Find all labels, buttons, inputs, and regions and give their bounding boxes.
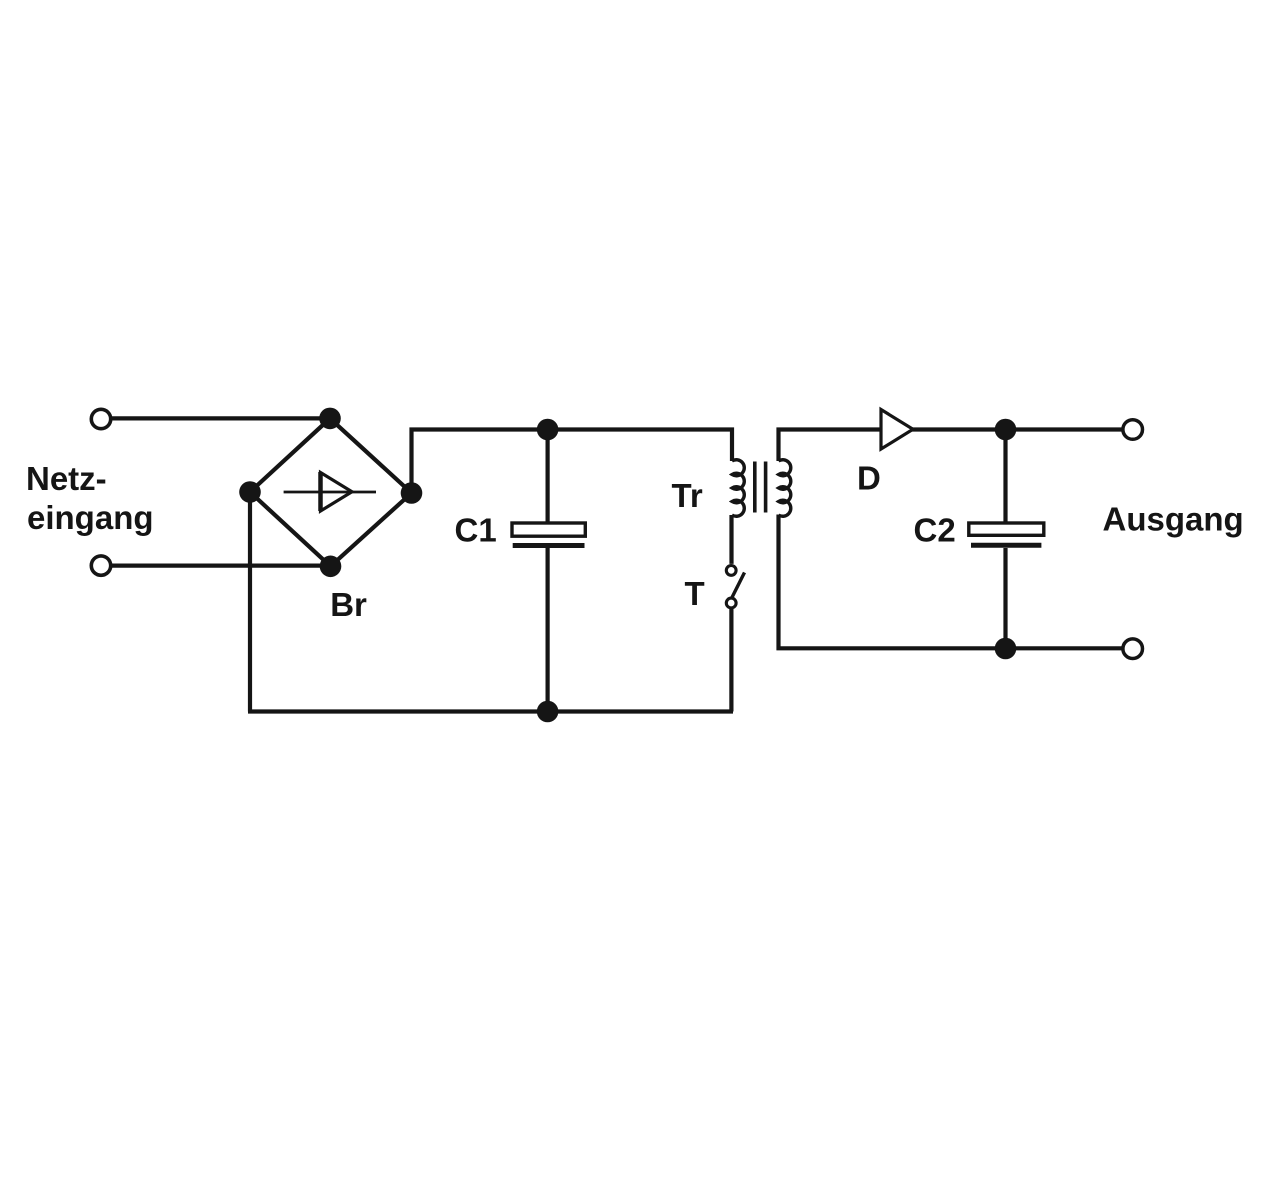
node C1 top bbox=[537, 419, 559, 441]
node C1 bottom bbox=[537, 701, 559, 723]
node C2 top bbox=[995, 419, 1017, 441]
node bridge top bbox=[319, 408, 341, 430]
node bridge right bbox=[401, 482, 423, 504]
output terminal lower bbox=[1123, 639, 1143, 659]
transformer core bar right bbox=[764, 462, 768, 513]
bridge rectifier Br diamond bbox=[250, 418, 412, 566]
input terminal upper bbox=[91, 409, 110, 428]
capacitor C2 top plate bbox=[969, 523, 1044, 535]
node bridge left bbox=[239, 481, 261, 503]
node bridge bottom bbox=[320, 556, 342, 578]
wire upper input to bridge top node bbox=[111, 416, 330, 420]
switch T arm bbox=[732, 573, 745, 599]
input terminal lower bbox=[91, 556, 110, 575]
capacitor C2 bottom lead bbox=[1003, 548, 1007, 648]
bridge inner diode left bar bbox=[318, 472, 323, 511]
svg-text:Tr: Tr bbox=[672, 477, 703, 514]
svg-text:C1: C1 bbox=[455, 512, 497, 549]
svg-text:Ausgang: Ausgang bbox=[1103, 501, 1244, 538]
switch T bottom contact bbox=[726, 598, 736, 608]
transformer core bar left bbox=[753, 462, 757, 513]
svg-text:Netz-: Netz- bbox=[26, 460, 107, 497]
wire primary winding to switch bbox=[729, 515, 733, 564]
wire bridge left node down to bottom rail bbox=[248, 492, 252, 712]
transformer Tr secondary winding bbox=[779, 460, 791, 516]
transformer Tr primary winding bbox=[732, 460, 744, 516]
wire secondary bottom rail bbox=[779, 515, 1124, 649]
bridge inner diode triangle bbox=[321, 473, 353, 512]
wire secondary top to diode and output bbox=[779, 430, 1124, 462]
bridge inner diode line bbox=[284, 491, 376, 494]
diode D triangle bbox=[881, 410, 913, 450]
node C2 bottom bbox=[995, 638, 1017, 660]
wire bridge right node up and top rail to transformer bbox=[412, 430, 733, 494]
switch T top contact bbox=[726, 566, 736, 576]
svg-text:C2: C2 bbox=[914, 512, 956, 549]
wire switch to bottom rail bbox=[729, 608, 733, 712]
capacitor C1 top plate bbox=[512, 523, 585, 536]
output terminal upper bbox=[1123, 420, 1143, 440]
svg-text:D: D bbox=[857, 460, 881, 497]
wire bottom rail bbox=[248, 709, 733, 713]
wire lower input to bridge bottom node bbox=[111, 563, 331, 567]
capacitor C2 bottom plate bbox=[971, 543, 1041, 548]
svg-text:T: T bbox=[685, 575, 705, 612]
capacitor C1 bottom lead bbox=[545, 548, 549, 712]
capacitor C2 top lead bbox=[1003, 429, 1007, 524]
capacitor C1 bottom plate bbox=[513, 543, 585, 548]
svg-text:eingang: eingang bbox=[27, 499, 154, 536]
capacitor C1 top lead bbox=[545, 429, 549, 524]
svg-text:Br: Br bbox=[330, 586, 367, 623]
